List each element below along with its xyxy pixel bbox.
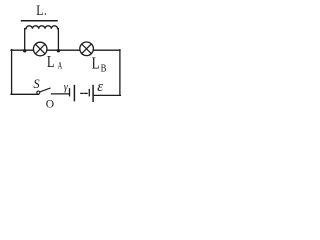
label LB <box>92 54 107 75</box>
label O <box>46 98 54 110</box>
lamp LA <box>33 42 47 56</box>
wire main left segment <box>11 49 34 51</box>
svg-text:B: B <box>101 64 107 75</box>
battery cell 2 short plate <box>88 90 90 96</box>
svg-text:L: L <box>47 52 55 71</box>
lamp LB <box>80 42 94 56</box>
svg-text:S: S <box>33 77 40 91</box>
wire right of lamp B <box>93 49 120 51</box>
label LA <box>47 52 62 72</box>
svg-text:L: L <box>36 3 43 19</box>
wire bottom left <box>11 93 38 95</box>
node junction right <box>57 49 60 52</box>
label L (inductor) <box>36 3 43 19</box>
label S <box>33 77 40 91</box>
wire right vertical <box>119 50 121 96</box>
wire between lamps <box>47 49 80 51</box>
inductor L coil <box>25 26 59 50</box>
battery cell 1 short plate <box>69 89 71 96</box>
wire switch to battery <box>52 93 70 95</box>
switch S blade <box>40 88 50 92</box>
label epsilon <box>97 79 103 95</box>
switch S pivot <box>37 91 40 94</box>
wire left vertical <box>11 50 13 95</box>
wire battery to bottom right corner <box>94 94 121 96</box>
battery cell 1 long plate <box>73 86 75 101</box>
node junction left <box>23 49 26 52</box>
svg-text:O: O <box>46 98 54 110</box>
svg-text:ε: ε <box>97 79 103 95</box>
battery dashed link <box>81 92 87 94</box>
svg-text:L: L <box>92 54 100 73</box>
svg-text:A: A <box>58 62 62 72</box>
stray dot after L <box>45 13 46 14</box>
underline below L <box>22 20 58 22</box>
battery cell 2 long plate <box>92 86 94 102</box>
label r (internal resistance, gamma-like) <box>64 82 69 93</box>
